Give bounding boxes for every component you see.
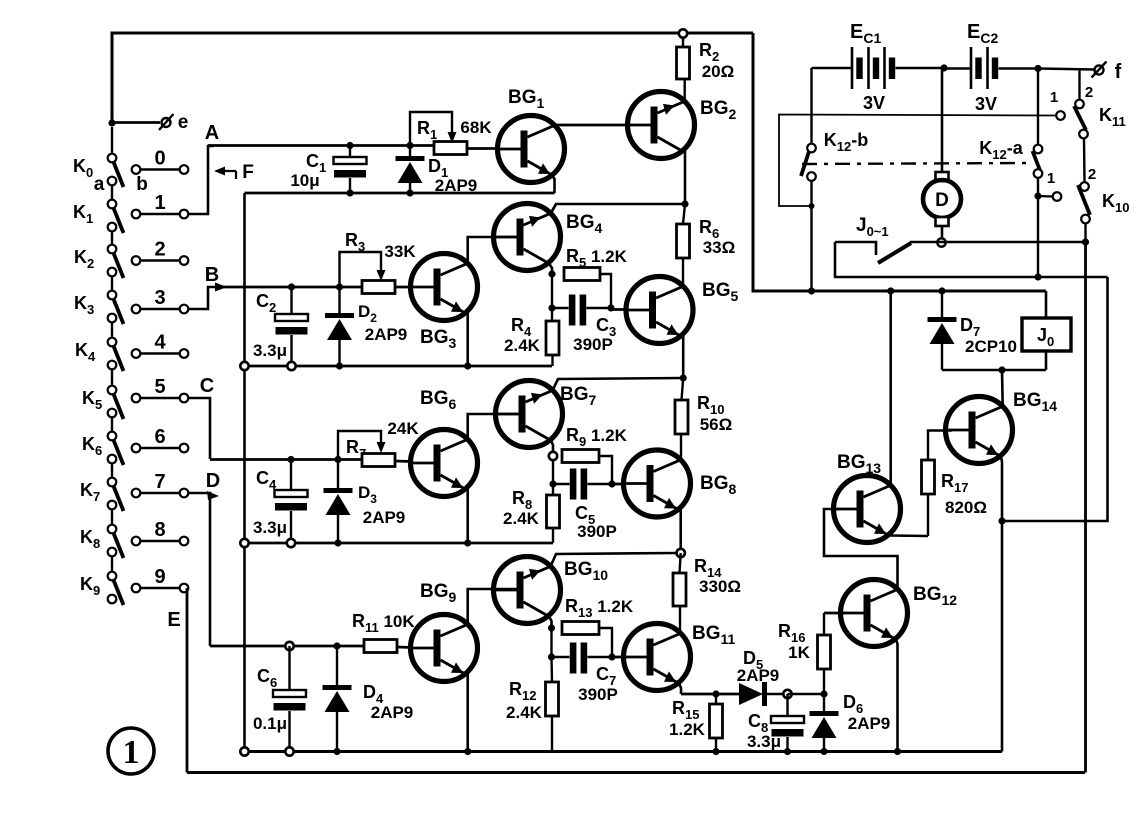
svg-text:2CP10: 2CP10 xyxy=(965,337,1017,356)
wire BG13 emitter to R17 xyxy=(889,534,928,537)
transistor BG7 xyxy=(496,381,563,448)
resistor R16 xyxy=(823,669,825,694)
svg-text:A: A xyxy=(205,122,219,144)
wire BG4 emitter to R5 node xyxy=(549,264,552,275)
node K12-b branch xyxy=(808,287,815,294)
svg-text:24K: 24K xyxy=(387,419,419,438)
node C5 right xyxy=(608,480,615,487)
wire bottom return E line xyxy=(187,771,1085,774)
svg-text:2.4K: 2.4K xyxy=(504,336,541,355)
wire BG3 emitter down xyxy=(466,311,469,366)
switch K11 xyxy=(1078,70,1080,100)
wire K11 feed line xyxy=(779,115,1056,207)
contact 3 xyxy=(132,305,141,314)
wire R1 to BG1 base xyxy=(467,147,498,150)
svg-text:E: E xyxy=(167,609,180,631)
node C8 bottom xyxy=(784,748,791,755)
contact 2 xyxy=(132,256,141,265)
capacitor C3 xyxy=(552,307,569,309)
node C7 right xyxy=(608,653,615,660)
wire R9 node down to C5 xyxy=(552,460,554,484)
contact 9 xyxy=(132,584,141,593)
transistor BG6 xyxy=(411,430,478,497)
wire C line stage3 input xyxy=(210,458,362,461)
wire D line stage4 input xyxy=(210,645,364,648)
resistor R5 xyxy=(564,268,600,281)
svg-text:D: D xyxy=(206,470,220,492)
svg-text:C: C xyxy=(200,375,214,397)
wire R9 right elbow xyxy=(599,456,612,484)
svg-text:e: e xyxy=(178,112,189,133)
node stage2 C2 bottom xyxy=(287,362,295,370)
svg-text:f: f xyxy=(1115,61,1122,83)
svg-text:3.3μ: 3.3μ xyxy=(747,732,781,751)
svg-text:0: 0 xyxy=(154,148,165,170)
svg-text:3: 3 xyxy=(154,287,165,309)
wire node to BG10 collector xyxy=(551,553,677,567)
battery EC2 xyxy=(944,67,971,70)
switch K9 xyxy=(111,556,113,572)
motor D xyxy=(941,68,944,172)
wire node D from contact 7 xyxy=(189,493,211,646)
resistor R12 xyxy=(550,657,553,682)
capacitor C8 xyxy=(786,694,788,716)
terminal f xyxy=(1095,66,1104,75)
resistor R3 with wiper loop xyxy=(340,252,382,287)
resistor R15 xyxy=(715,694,717,704)
node BG14 emitter y521 xyxy=(998,517,1005,524)
svg-text:3V: 3V xyxy=(863,93,885,113)
capacitor C6 xyxy=(288,646,290,690)
wire BG1 collector to BG2 base xyxy=(555,124,629,127)
svg-text:56Ω: 56Ω xyxy=(700,415,733,434)
transistor BG14 xyxy=(946,397,1013,464)
node stage2-3 junction xyxy=(680,374,687,381)
transistor BG2 xyxy=(628,92,695,159)
svg-text:390P: 390P xyxy=(577,522,617,541)
capacitor C1 xyxy=(349,146,351,158)
wire R7 to BG6 base xyxy=(395,460,412,463)
svg-text:1: 1 xyxy=(1050,89,1058,106)
svg-text:2AP9: 2AP9 xyxy=(363,508,406,527)
node BG12 emitter xyxy=(894,748,901,755)
diode D7 xyxy=(941,291,943,317)
wire BG12 collector to BG13 base xyxy=(824,509,898,590)
wire BG3 collector to BG4 base xyxy=(468,237,516,263)
svg-text:9: 9 xyxy=(154,566,165,588)
capacitor C4 xyxy=(290,460,292,491)
node stage3 D3 bottom xyxy=(334,539,341,546)
wire K11 to K10 xyxy=(1083,139,1086,183)
svg-text:2AP9: 2AP9 xyxy=(737,666,780,685)
svg-text:6: 6 xyxy=(154,426,165,448)
switch K12-a xyxy=(1037,69,1039,145)
wire stage4 bottom xyxy=(245,750,1003,753)
svg-text:1: 1 xyxy=(154,192,165,214)
node D6 bottom xyxy=(820,748,827,755)
node stage1-2 junction xyxy=(681,200,688,207)
svg-text:68K: 68K xyxy=(460,118,492,137)
node stage4 D4 bottom xyxy=(333,748,340,755)
svg-text:2AP9: 2AP9 xyxy=(365,325,408,344)
wire node to BG4 collector xyxy=(551,204,686,214)
wire node A from contact 1 xyxy=(189,146,215,214)
svg-text:33Ω: 33Ω xyxy=(703,238,736,257)
switch K4 xyxy=(111,322,113,338)
transistor BG5 xyxy=(626,277,693,344)
node stage3 BG6 emitter xyxy=(464,539,471,546)
symbol circled 1 xyxy=(108,728,154,774)
node C8 top xyxy=(783,690,791,698)
wire A line stage1 input xyxy=(208,144,434,147)
svg-text:3V: 3V xyxy=(975,94,997,114)
node C2 top xyxy=(288,283,295,290)
wire C5 right to BG8 base xyxy=(612,483,624,486)
wire J0-1 loop xyxy=(835,242,1108,277)
diode D6 xyxy=(823,694,825,711)
arrow F annotation xyxy=(219,170,236,172)
node R9 left xyxy=(549,452,557,460)
svg-text:5: 5 xyxy=(154,376,165,398)
svg-text:390P: 390P xyxy=(578,685,618,704)
switch K1 xyxy=(111,185,113,200)
wire BG6 collector to BG7 base xyxy=(468,414,518,440)
node K12-a loop junction xyxy=(1034,273,1041,280)
terminal motor bottom xyxy=(937,238,945,246)
transistor BG13 xyxy=(834,476,901,543)
svg-text:2: 2 xyxy=(1088,166,1096,183)
svg-text:20Ω: 20Ω xyxy=(702,62,735,81)
node battery mid xyxy=(940,64,947,71)
svg-text:1: 1 xyxy=(123,734,140,771)
node motor line right xyxy=(1082,238,1089,245)
transistor BG10 xyxy=(494,557,561,624)
node stage2 F junction xyxy=(240,362,248,370)
wire R11 to BG9 base xyxy=(397,646,412,649)
node R15 top xyxy=(712,690,719,697)
wire to terminal f xyxy=(1038,69,1094,70)
node D3 R7 junction xyxy=(334,456,341,463)
transistor BG4 xyxy=(494,204,561,271)
wire K10 down to E line xyxy=(1084,242,1087,773)
switch K10 xyxy=(1080,182,1089,191)
wire D7 J0 bottom junction xyxy=(942,369,1046,372)
svg-text:7: 7 xyxy=(154,471,165,493)
switch K7 xyxy=(111,463,113,478)
node D7 top xyxy=(938,287,945,294)
diode D1 xyxy=(409,146,411,157)
wire K12-a common down xyxy=(1037,196,1039,277)
wire BG13 collector up to rail xyxy=(889,291,892,485)
svg-text:4: 4 xyxy=(154,332,166,354)
node stage3-4 junction xyxy=(677,549,685,557)
node C5 left xyxy=(549,480,556,487)
resistor R9 xyxy=(562,450,599,463)
wire stage4 output line xyxy=(681,693,739,696)
wire F common line xyxy=(243,193,246,752)
node stage4 C6 bottom xyxy=(285,747,293,755)
node D6 top xyxy=(820,690,827,697)
svg-text:2AP9: 2AP9 xyxy=(848,714,891,733)
wire BG9 collector to BG10 base xyxy=(468,589,518,625)
transistor BG9 xyxy=(411,615,478,682)
switch K8 xyxy=(111,509,113,525)
resistor R4 xyxy=(551,308,553,321)
node C4 top xyxy=(287,456,294,463)
svg-text:b: b xyxy=(136,174,148,195)
wire R3 to BG3 base xyxy=(395,286,412,289)
contact 6 xyxy=(132,444,141,453)
resistor R8 xyxy=(552,484,554,495)
switch K2 xyxy=(111,231,113,245)
node R13 left xyxy=(548,624,555,631)
node K-chain top xyxy=(108,119,115,126)
svg-text:0.1μ: 0.1μ xyxy=(253,714,287,733)
wire top supply rail xyxy=(112,33,753,123)
svg-text:2.4K: 2.4K xyxy=(506,703,543,722)
svg-text:3.3μ: 3.3μ xyxy=(253,518,287,537)
wire R16 to BG12 base xyxy=(824,612,845,615)
contact 8 xyxy=(132,537,141,546)
contact 5 xyxy=(132,394,141,403)
wire node C from contact 5 xyxy=(189,398,211,459)
svg-text:2.4K: 2.4K xyxy=(503,509,540,528)
wire BG4 collector up xyxy=(551,204,557,214)
relay contact J0-1 xyxy=(835,242,876,255)
node D2 R3 junction xyxy=(336,283,343,290)
wire BG2 emitter to node xyxy=(684,149,687,204)
wire B line stage2 input xyxy=(216,286,362,289)
svg-text:330Ω: 330Ω xyxy=(699,577,741,596)
svg-text:D: D xyxy=(935,190,949,211)
wire BG5 emitter down xyxy=(682,334,685,378)
resistor R6 xyxy=(683,204,685,224)
svg-text:10μ: 10μ xyxy=(290,171,319,190)
wire node E from contact 9 xyxy=(186,588,189,773)
node stage3 C4 bottom xyxy=(287,539,295,547)
node K12-a branch top xyxy=(1034,65,1041,72)
wire R5 node down to C3 xyxy=(551,274,553,308)
node C6 top xyxy=(285,642,293,650)
node K10 contact1 branch xyxy=(1034,192,1041,199)
switch K5 xyxy=(111,369,113,386)
contact 4 xyxy=(132,349,141,358)
svg-text:2: 2 xyxy=(1085,84,1093,101)
resistor R2 xyxy=(679,29,687,37)
resistor R17 xyxy=(927,494,929,536)
node C3 left xyxy=(548,304,555,311)
node D1 R1 junction xyxy=(406,142,413,149)
node BG13 collector rail xyxy=(887,287,894,294)
wire R5 right elbow xyxy=(600,274,611,308)
node C7 left xyxy=(548,653,555,660)
node stage3 F junction xyxy=(240,539,248,547)
contact 0 xyxy=(132,165,141,174)
svg-text:3.3μ: 3.3μ xyxy=(253,341,287,360)
wire supply right branch down xyxy=(753,33,1046,291)
wire D5 to D6 node xyxy=(788,693,825,695)
wire BG12 emitter down xyxy=(896,640,898,752)
node C1 top xyxy=(346,142,353,149)
resistor R7 with wiper loop xyxy=(338,431,381,460)
wire BG10 emitter to R13 node xyxy=(549,617,552,629)
diode D2 xyxy=(338,287,340,313)
resistor R13 xyxy=(562,622,599,635)
wire BG7 emitter to R9 node xyxy=(551,441,553,453)
transistor BG8 xyxy=(624,450,691,517)
wire BG14 emitter down xyxy=(1001,457,1002,752)
wire BG11 emitter down to diode line xyxy=(679,684,681,695)
node BG14 collector junction xyxy=(998,366,1005,373)
capacitor C2 xyxy=(290,287,292,314)
node stage4 BG9 emitter xyxy=(464,748,471,755)
node stage2 BG3 emitter xyxy=(464,362,471,369)
diode D5 xyxy=(739,683,763,705)
resistor R1 with wiper loop xyxy=(410,112,452,146)
switch K12-b xyxy=(810,68,812,144)
wire R13 right elbow xyxy=(599,628,612,657)
capacitor C7 xyxy=(552,656,570,658)
wire R13 node down to C7 xyxy=(550,628,552,657)
wire stage1 bottom xyxy=(245,192,555,195)
svg-text:820Ω: 820Ω xyxy=(945,498,987,517)
wire node to BG7 collector xyxy=(553,378,684,391)
wire C7 right to BG11 base xyxy=(612,656,624,659)
arrow D xyxy=(207,491,219,500)
wire BG8 emitter down xyxy=(679,508,682,554)
transistor BG1 xyxy=(498,116,565,183)
svg-text:1.2K: 1.2K xyxy=(669,720,706,739)
battery EC1 xyxy=(812,67,853,70)
resistor R10 xyxy=(682,378,684,400)
contact 7 xyxy=(132,489,141,498)
svg-text:F: F xyxy=(242,162,254,183)
node R15 bottom xyxy=(712,748,719,755)
node stage4 F junction xyxy=(240,747,248,755)
svg-text:B: B xyxy=(205,264,219,286)
svg-text:a: a xyxy=(94,174,105,195)
wire BG14 collector up xyxy=(1001,370,1004,406)
wire stage2 bottom xyxy=(245,365,553,368)
svg-text:1: 1 xyxy=(1047,170,1055,187)
diode D3 xyxy=(337,460,339,489)
terminal e xyxy=(112,121,160,124)
mechanical link K12 dashed xyxy=(802,163,1026,164)
node stage1 D1 bottom xyxy=(406,189,413,196)
wire BG9 emitter down xyxy=(466,672,469,752)
wire emitter node to right branch xyxy=(1002,277,1108,521)
node stage2 D2 bottom xyxy=(336,362,343,369)
wire K10 common down xyxy=(1084,224,1086,243)
node C3 right xyxy=(607,304,614,311)
capacitor C5 xyxy=(553,483,570,485)
svg-text:1K: 1K xyxy=(788,643,810,662)
wire C3 right to BG5 base xyxy=(611,308,626,311)
transistor BG12 xyxy=(841,580,908,647)
resistor R14 xyxy=(680,553,681,573)
contact 1 xyxy=(132,210,141,219)
switch K3 xyxy=(111,276,113,291)
node D4 top xyxy=(333,642,340,649)
transistor BG3 xyxy=(411,254,478,321)
svg-text:8: 8 xyxy=(154,519,165,541)
wire BG6 emitter down xyxy=(466,487,469,543)
relay coil J0 xyxy=(1045,291,1048,318)
wire BG1 emitter down xyxy=(553,176,555,193)
diode D4 xyxy=(336,646,338,685)
svg-text:2: 2 xyxy=(154,239,165,261)
switch K0 xyxy=(111,127,113,154)
node stage1 C1 bottom xyxy=(346,189,353,196)
resistor R11 xyxy=(364,640,397,653)
wire stage3 bottom xyxy=(245,542,554,545)
transistor BG11 xyxy=(624,624,691,691)
wire J0 bottom xyxy=(1045,351,1048,370)
node R5 left xyxy=(548,270,555,277)
arrow B xyxy=(215,283,227,292)
svg-text:33K: 33K xyxy=(384,242,416,261)
svg-text:2AP9: 2AP9 xyxy=(371,703,414,722)
svg-text:390P: 390P xyxy=(573,335,613,354)
switch K6 xyxy=(111,417,113,432)
wire node B from contact 3 xyxy=(189,287,217,309)
